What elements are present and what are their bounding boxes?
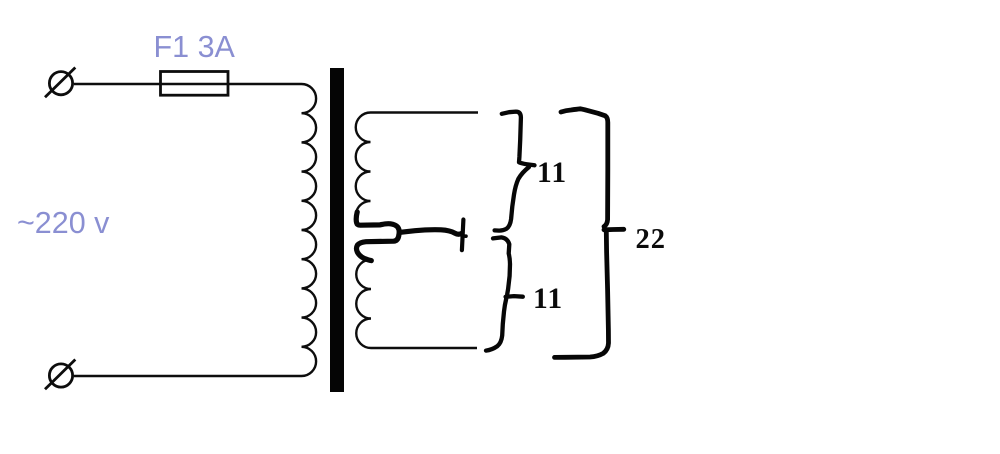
svg-text:11: 11 [533, 283, 563, 315]
brace for 11 (top) lower stroke [495, 167, 529, 231]
brace for 22 point stub [604, 227, 624, 232]
fuse F1 [161, 72, 229, 96]
svg-text:22: 22 [636, 224, 667, 255]
wire bottom input [74, 375, 302, 377]
svg-text:11: 11 [537, 157, 567, 189]
secondary winding top half [356, 113, 478, 211]
center tap terminal tick [462, 220, 464, 251]
secondary winding bottom half [356, 260, 477, 349]
center tap terminal junction nub [463, 234, 467, 238]
brace for 11 (top) upper stroke [502, 112, 535, 166]
terminal X2 (bottom input) [45, 360, 75, 390]
wire top input [74, 83, 302, 85]
brace for 11 (bottom) point stub [506, 294, 523, 299]
brace for 22 upper stroke [561, 109, 608, 227]
transformer core [330, 68, 344, 392]
brace for 22 lower stroke [555, 232, 609, 358]
svg-text:~220 v: ~220 v [17, 206, 110, 240]
brace for 11 (bottom) lower stroke [486, 299, 506, 351]
svg-text:F1 3A: F1 3A [154, 30, 236, 64]
center tap stroke lower (hand drawn) [356, 234, 399, 261]
terminal X1 (top input) [45, 68, 75, 98]
center tap wire to terminal (hand drawn) [399, 230, 462, 234]
center tap stroke upper (hand drawn) [356, 212, 399, 233]
transformer T1 primary winding [302, 84, 317, 376]
brace for 11 (bottom) upper stroke [493, 237, 510, 294]
